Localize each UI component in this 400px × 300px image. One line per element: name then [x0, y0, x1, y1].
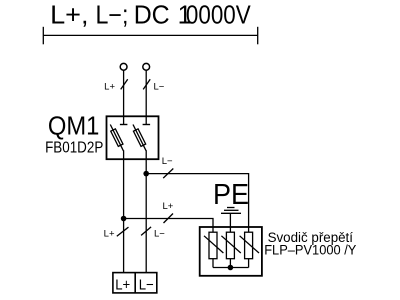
- conductor mark slash L+ bottom: [117, 227, 129, 236]
- conductor mark slash L- bottom: [141, 227, 151, 236]
- svg-text:PE: PE: [213, 179, 249, 211]
- junction dot L+ branch: [121, 216, 127, 222]
- junction dot in surge box: [228, 265, 234, 271]
- wire L- branch to SPD: [146, 174, 248, 233]
- fuse-switch pole 2 fuse body: [133, 129, 145, 147]
- earth symbol line long: [221, 212, 241, 214]
- varistor 3 bottom stub: [248, 259, 250, 268]
- conductor mark slash L+ branch: [164, 214, 174, 224]
- svg-text:L+: L+: [163, 201, 174, 212]
- varistor 1 diagonal: [204, 236, 223, 253]
- surge arrester box: [200, 227, 262, 276]
- wire L- from terminal to QM1: [145, 70, 147, 124]
- bus line left tick: [42, 27, 44, 45]
- terminal circle L+: [120, 63, 127, 70]
- svg-text:L+: L+: [104, 82, 115, 93]
- junction dot L- branch: [143, 171, 149, 177]
- conductor mark slash L- branch: [163, 169, 173, 179]
- earth symbol line medium: [224, 209, 239, 211]
- fuse-switch pole 2 blade: [133, 125, 146, 151]
- svg-text:L+,: L+,: [50, 1, 88, 29]
- varistor 2 diagonal: [221, 236, 240, 253]
- fuse-switch pole 1 blade: [110, 125, 123, 151]
- conductor mark slash L- top: [143, 79, 150, 89]
- varistor 2 body: [226, 232, 234, 259]
- svg-text:FLP–PV1000 /Y: FLP–PV1000 /Y: [264, 242, 356, 257]
- svg-text:L−: L−: [139, 277, 154, 294]
- fuse-switch pole 1 contact bar: [120, 124, 128, 126]
- output terminal divider: [134, 273, 136, 293]
- terminal circle L-: [143, 63, 150, 70]
- wire L+ from terminal to QM1: [123, 70, 125, 124]
- svg-text:L−: L−: [162, 156, 173, 167]
- svg-text:QM1: QM1: [48, 110, 100, 140]
- fuse-switch pole 1 fuse body: [111, 129, 123, 147]
- svg-text:L−;: L−;: [96, 1, 129, 29]
- wire L- from QM1 down to output: [145, 150, 147, 272]
- fuse-switch pole 2 contact bar: [143, 124, 151, 126]
- earth symbol stub: [229, 213, 231, 232]
- svg-text:L−: L−: [154, 229, 165, 240]
- varistor 3 diagonal: [240, 236, 259, 253]
- bus wire in surge box: [213, 267, 249, 269]
- bus line right tick: [257, 27, 259, 45]
- varistor 2 bottom stub: [229, 259, 231, 268]
- earth symbol line short: [227, 207, 235, 209]
- bus line under title: [43, 34, 257, 36]
- wire L+ from QM1 down to output: [123, 150, 125, 272]
- varistor 1 body: [209, 232, 217, 259]
- svg-text:L+: L+: [104, 229, 115, 240]
- svg-text:L−: L−: [154, 82, 165, 93]
- conductor mark slash L+ top: [121, 79, 128, 89]
- wire L+ branch to SPD: [124, 219, 213, 233]
- svg-text:DC: DC: [134, 1, 170, 29]
- output terminal box: [113, 273, 157, 293]
- svg-text:0000V: 0000V: [186, 1, 251, 29]
- switch-fuse QM1 box: [107, 116, 159, 159]
- svg-text:FB01D2P: FB01D2P: [45, 139, 103, 156]
- varistor 3 body: [245, 232, 253, 259]
- svg-text:L+: L+: [115, 277, 130, 294]
- varistor 1 bottom stub: [212, 259, 214, 268]
